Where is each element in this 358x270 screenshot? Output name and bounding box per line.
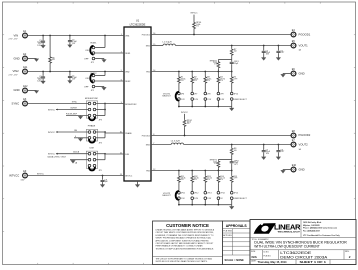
- svg-text:CUSTOMER NOTICE: CUSTOMER NOTICE: [166, 223, 209, 228]
- svg-text:REV.: REV.: [345, 251, 350, 253]
- wire SYNC to JP3: [27, 103, 88, 105]
- svg-text:PGOOD2: PGOOD2: [142, 135, 150, 137]
- svg-text:Thursday, May 15, 2014: Thursday, May 15, 2014: [258, 260, 288, 264]
- svg-text:PCB NO.: PCB NO.: [263, 256, 271, 258]
- svg-text:JP5: JP5: [99, 170, 102, 172]
- junction dots FB2 bus: [178, 170, 180, 172]
- resistor R7 0 ohm: [231, 46, 233, 49]
- jumper JP9 3.3V: [217, 92, 220, 95]
- svg-text:2.7V - 17V: 2.7V - 17V: [9, 39, 19, 41]
- JP4 right column tie wire: [104, 132, 106, 138]
- svg-text:JP7: JP7: [194, 93, 197, 95]
- svg-text:LTC3622EDE: LTC3622EDE: [130, 22, 146, 26]
- capacitor C3 0.1uF on VIN1: [69, 36, 71, 40]
- svg-text:SW2: SW2: [146, 144, 150, 146]
- capacitor C5 47uF VOUT1: [263, 46, 265, 51]
- svg-text:JP6: JP6: [181, 93, 184, 95]
- PHASE 0 row with ground: [74, 137, 88, 139]
- wire RUN1 jumper to U1 RUN1 pin: [95, 52, 124, 54]
- svg-text:ILIM: ILIM: [125, 154, 129, 156]
- svg-text:LTC3622EDE: LTC3622EDE: [280, 251, 312, 255]
- svg-text:INTVCC: INTVCC: [125, 175, 133, 177]
- resistor R2 232k ch1 divider: [191, 72, 193, 77]
- capacitor C6 OPT VOUT1: [277, 46, 279, 51]
- svg-text:APPROVALS: APPROVALS: [226, 224, 248, 228]
- capacitor CFF2 22pF: [231, 160, 233, 161]
- wire VIN1 to RUN1 jumper: [104, 36, 106, 48]
- terminal E7 VOUT2: [291, 139, 308, 151]
- svg-text:RUN2: RUN2: [125, 81, 130, 83]
- svg-text:INTVCC: INTVCC: [48, 109, 56, 111]
- wire RUN2 jumper to U1 RUN2 pin: [95, 80, 124, 82]
- svg-text:SYNC: SYNC: [72, 102, 78, 104]
- svg-text:USER SELECT: USER SELECT: [234, 198, 248, 200]
- svg-text:THE CIRCUIT IS PROPRIETARY TO: THE CIRCUIT IS PROPRIETARY TO LINEAR TEC…: [156, 258, 213, 264]
- jumper JP8 2.5V: [204, 92, 207, 95]
- terminal E2 GND: [14, 53, 28, 61]
- wire jumper bottom bus ch2: [179, 204, 232, 206]
- svg-text:SCALE = NONE: SCALE = NONE: [225, 258, 245, 262]
- wire VIN2 rail: [27, 71, 124, 73]
- U1 left pin numbers: [120, 34, 122, 176]
- JP3 right column tie wire: [104, 104, 106, 116]
- terminal E4 PGOOD1: [291, 29, 311, 37]
- svg-text:WITH ULTRA-LOW QUIESCENT CURRE: WITH ULTRA-LOW QUIESCENT CURRENT: [254, 245, 319, 249]
- jumper JP6 1.2V: [178, 92, 181, 95]
- svg-text:JP10: JP10: [234, 93, 238, 95]
- JP5 right column tie wire: [104, 154, 106, 160]
- capacitor C7 47uF VOUT2: [263, 145, 265, 150]
- svg-text:MODE/SYNC: MODE/SYNC: [85, 98, 99, 100]
- resistor R3 121k ch1 divider: [204, 72, 206, 77]
- svg-text:SHEET 1 OF 1: SHEET 1 OF 1: [300, 260, 327, 264]
- capacitor C8 OPT VOUT2: [277, 145, 279, 150]
- ground ch1 select bus: [231, 107, 233, 109]
- svg-text:JP4: JP4: [99, 142, 102, 144]
- wire JP4 to U1 PHASE pin: [96, 131, 105, 133]
- JP1 OFF pin ground: [95, 58, 104, 60]
- junction dots VOUT1 rail: [231, 45, 233, 47]
- JP3 shunt installed: [89, 117, 95, 120]
- junction dot PGOOD1: [193, 34, 195, 36]
- wire E10 to ground: [283, 169, 291, 171]
- svg-text:180: 180: [74, 130, 77, 132]
- svg-text:JP2: JP2: [91, 90, 94, 92]
- terminal E3 SYNC: [12, 98, 28, 106]
- wire VOUT2 rail: [184, 144, 292, 146]
- svg-text:DEMO CIRCUIT 2003A: DEMO CIRCUIT 2003A: [280, 255, 328, 259]
- capacitor C4 0.1uF on VIN2: [69, 72, 71, 76]
- JP2 shunt ON position: [90, 74, 93, 83]
- svg-text:VIN1: VIN1: [125, 35, 129, 37]
- resistor R4 78.7k ch1 divider: [217, 72, 219, 77]
- node A wire ch1: [218, 59, 231, 61]
- svg-text:APP ENG: APP ENG: [223, 234, 232, 237]
- svg-text:GND: GND: [299, 71, 305, 75]
- svg-text:PGOOD2: PGOOD2: [299, 133, 311, 137]
- net INTVCC to BURST row: [56, 109, 88, 111]
- wire JP3 to U1 MODE/SYNC pin: [96, 103, 124, 105]
- capacitor C9 1uF on INTVCC: [102, 176, 104, 180]
- svg-text:PHASE: PHASE: [88, 125, 96, 128]
- terminal E1 VIN1: [9, 30, 28, 40]
- approvals table lines: [223, 229, 251, 255]
- wire E2 to ground: [27, 58, 36, 60]
- jumper JP13 3.3V: [204, 191, 207, 194]
- svg-text:LTC Confidential For Customer: LTC Confidential For Customer Use Only: [303, 234, 341, 237]
- svg-text:SYNC: SYNC: [12, 101, 20, 105]
- jumper JP11 1.5V: [178, 191, 181, 194]
- svg-text:RUN1: RUN1: [125, 53, 130, 55]
- net INTVCC to PHASE 180 row: [56, 131, 88, 133]
- svg-text:GND: GND: [14, 57, 20, 61]
- resistor RFSET2 115k: [217, 159, 219, 162]
- wire E12 to ground: [27, 90, 36, 92]
- svg-text:INTVCC: INTVCC: [9, 173, 19, 177]
- svg-text:IC NO.: IC NO.: [263, 252, 269, 254]
- svg-text:PCB ENG: PCB ENG: [223, 231, 232, 233]
- terminal E5 VOUT1: [291, 40, 308, 51]
- resistor R14 11.5k ch2 divider: [217, 171, 219, 176]
- svg-text:JP11: JP11: [181, 193, 185, 195]
- wire VOUT1 rail: [175, 45, 291, 47]
- svg-text:E11: E11: [23, 66, 28, 69]
- svg-text:JP8: JP8: [207, 93, 210, 95]
- Linear Technology logo: [254, 223, 302, 234]
- customer notice box: [153, 221, 223, 265]
- junction dots on VIN2 rail: [42, 71, 44, 73]
- svg-text:GND: GND: [14, 88, 20, 92]
- svg-text:PULSE-SKIP: PULSE-SKIP: [66, 114, 78, 116]
- svg-text:VOUT2: VOUT2: [299, 143, 309, 147]
- terminal E10 GND: [291, 164, 305, 172]
- junction dots FB1 bus: [178, 71, 180, 73]
- resistor R5 OPT ch1 divider: [231, 72, 233, 77]
- jumper JP7 1.8V: [191, 92, 194, 95]
- svg-text:PGOOD1: PGOOD1: [299, 33, 311, 37]
- resistor RPG1 100k pullup: [193, 15, 195, 22]
- resistor R15 OPT ch2 divider: [231, 171, 233, 176]
- junction dot INTVCC rail: [102, 175, 104, 177]
- wire FB1 bus: [151, 71, 232, 73]
- svg-text:500mA CH#N 2 ONLY: 500mA CH#N 2 ONLY: [47, 156, 66, 159]
- resistor R6 0 ohm between VIN1 and VIN2 rails: [49, 36, 51, 57]
- wire E6 to ground: [283, 73, 291, 75]
- svg-text:VIN: VIN: [14, 33, 19, 37]
- capacitor C1 22uF on VIN1: [42, 36, 44, 41]
- U1 right pin names: [142, 34, 150, 172]
- svg-text:JP3: JP3: [99, 120, 102, 122]
- net INTVCC to ILIM 500mA row: [56, 153, 88, 155]
- svg-text:FB2: FB2: [146, 170, 149, 172]
- svg-text:JP15: JP15: [234, 193, 238, 195]
- jumper JP14 5V: [217, 191, 220, 194]
- capacitor C2 22uF on VIN2: [42, 72, 44, 76]
- junction dots VOUT2 rail: [231, 144, 233, 146]
- svg-text:ON: ON: [85, 78, 89, 80]
- resistor R13 19.1k ch2 divider: [204, 171, 206, 176]
- inductor L1 3.3uH: [163, 44, 175, 46]
- svg-text:RUN1: RUN1: [91, 43, 98, 45]
- JP11 shunt installed: [176, 191, 179, 200]
- svg-text:VOUT1SELECT: VOUT1SELECT: [162, 94, 171, 98]
- U1 right pin numbers: [153, 33, 155, 171]
- svg-text:INTVCC: INTVCC: [48, 132, 56, 134]
- svg-text:VOUT2SELECT: VOUT2SELECT: [162, 193, 171, 197]
- JP4 shunt installed: [89, 139, 95, 142]
- svg-text:USER SELECT: USER SELECT: [234, 99, 248, 101]
- terminal E9 INTVCC: [9, 170, 27, 181]
- wire PGOOD2 rail: [151, 135, 291, 137]
- svg-text:DATE:: DATE:: [251, 260, 257, 263]
- resistor R11 63.4k ch2 divider: [178, 171, 180, 176]
- svg-text:JP12: JP12: [194, 193, 198, 195]
- junction dots on VIN1 rail: [42, 35, 44, 37]
- resistor R8 0 ohm: [231, 145, 233, 148]
- jumper JP15 USER SELECT: [230, 191, 233, 194]
- svg-text:MODE/SYNC: MODE/SYNC: [125, 104, 137, 106]
- node A wire ch2: [218, 159, 231, 161]
- resistor R1 97.6k ch1 divider: [178, 72, 180, 77]
- svg-text:BURST: BURST: [71, 108, 78, 110]
- svg-text:N/A: N/A: [252, 255, 258, 259]
- wire PGOOD1 rail: [151, 34, 291, 36]
- resistor R12 40.2k ch2 divider: [191, 171, 193, 176]
- svg-text:ILIM: ILIM: [89, 147, 93, 149]
- terminal E12 GND: [14, 85, 29, 93]
- svg-text:OFF: OFF: [84, 59, 89, 61]
- svg-text:INTVCC: INTVCC: [48, 154, 56, 156]
- svg-text:FB1: FB1: [146, 71, 149, 73]
- wire JP5 to U1 ILIM pin: [96, 153, 105, 155]
- svg-text:INTVCC: INTVCC: [37, 174, 45, 176]
- svg-text:0: 0: [75, 136, 76, 138]
- title block outer box: [250, 220, 356, 265]
- terminal E6 GND: [291, 68, 305, 76]
- U1 left pin names: [125, 35, 137, 177]
- svg-text:PGOOD1: PGOOD1: [142, 34, 150, 36]
- wire VIN2 to RUN2 jumper: [104, 72, 106, 76]
- svg-text:TECHNOLOGY: TECHNOLOGY: [277, 232, 301, 234]
- inductor L2 4.7uH: [171, 143, 183, 145]
- svg-text:INTVCC: INTVCC: [181, 112, 189, 114]
- ground ch2 select bus: [231, 205, 233, 207]
- svg-text:JP13: JP13: [207, 193, 211, 195]
- svg-text:JP1: JP1: [91, 62, 94, 64]
- svg-text:VIN2: VIN2: [125, 71, 129, 73]
- resistor RPG2 100k pullup: [184, 114, 186, 119]
- svg-text:L2 4.7µH: L2 4.7µH: [171, 141, 180, 143]
- title block dividers: [250, 220, 356, 265]
- terminal E8 PGOOD2: [291, 130, 311, 138]
- svg-text:PHASE: PHASE: [125, 132, 132, 135]
- svg-text:LINEAR: LINEAR: [274, 223, 301, 232]
- wire jumper bottom bus ch1: [179, 106, 232, 108]
- op-amp U1 LTC3622EDE (IC body): [124, 27, 151, 181]
- svg-text:VOUT1: VOUT1: [299, 43, 309, 47]
- svg-text:INTVCC: INTVCC: [190, 13, 198, 15]
- svg-text:2.7V - 17V: 2.7V - 17V: [9, 74, 19, 76]
- svg-text:OFF: OFF: [84, 86, 89, 88]
- svg-text:GND: GND: [299, 167, 305, 171]
- svg-text:L1 3.3µH: L1 3.3µH: [163, 41, 172, 43]
- junction dot PGOOD2: [184, 135, 186, 137]
- svg-text:ON: ON: [85, 50, 89, 52]
- U1 ground pin with ground symbol: [137, 181, 139, 185]
- svg-text:SW1: SW1: [146, 45, 150, 47]
- svg-text:U1: U1: [136, 19, 140, 23]
- resistor RFSET1 115k: [217, 60, 219, 61]
- wire SW2 from U1: [151, 144, 171, 146]
- approvals box: [223, 221, 251, 265]
- jumper JP10 USER SELECT: [230, 92, 233, 95]
- JP5 shunt installed: [89, 167, 95, 170]
- wire VIN1 rail: [27, 35, 124, 37]
- JP6 shunt installed: [176, 92, 179, 101]
- svg-text:JP9: JP9: [220, 93, 223, 95]
- jumper JP12 1.8V: [191, 191, 194, 194]
- svg-text:JP14: JP14: [220, 193, 224, 195]
- svg-text:E12: E12: [23, 85, 28, 88]
- svg-text:2: 2: [349, 255, 351, 259]
- terminal E11 VIN2: [9, 66, 28, 76]
- svg-text:500mA: 500mA: [73, 151, 80, 154]
- svg-text:E10: E10: [292, 164, 297, 167]
- ILIM 1A row with ground: [70, 159, 88, 161]
- JP2 OFF pin ground: [95, 86, 104, 88]
- svg-text:SIZE: SIZE: [251, 251, 256, 253]
- customer notice divider: [153, 256, 223, 258]
- wire INTVCC rail to U1: [27, 175, 124, 177]
- JP1 shunt ON position: [90, 46, 93, 55]
- PULSE-SKIP row with ground: [66, 115, 88, 117]
- capacitor CFF1 22pF: [231, 60, 233, 62]
- wire SW1 from U1: [151, 45, 163, 47]
- wire FB2 bus: [151, 170, 232, 172]
- svg-text:VIN2: VIN2: [13, 69, 20, 73]
